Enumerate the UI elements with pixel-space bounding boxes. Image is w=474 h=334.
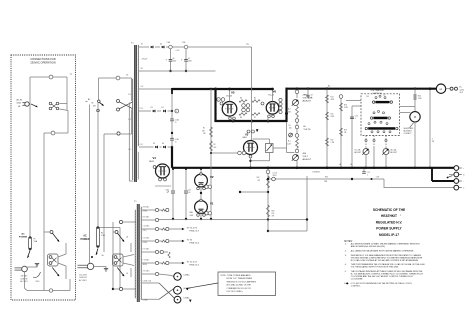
svg-text:D1: D1 bbox=[141, 44, 143, 46]
svg-text:NOTE: TOTAL POWER AVAILABLE: NOTE: TOTAL POWER AVAILABLE bbox=[221, 274, 252, 277]
svg-text:R15: R15 bbox=[331, 113, 334, 115]
svg-text:B+ VOLTAGE ADJUST CONTROL TURN: B+ VOLTAGE ADJUST CONTROL TURNED FULLY C… bbox=[351, 273, 424, 276]
svg-text:ALL RESISTORS ARE 1/2 WATT UNL: ALL RESISTORS ARE 1/2 WATT UNLESS MARKED… bbox=[351, 243, 420, 246]
svg-text:R1: R1 bbox=[203, 128, 205, 130]
svg-text:D6: D6 bbox=[162, 143, 164, 145]
svg-text:TP1: TP1 bbox=[246, 44, 249, 46]
svg-text:PINS 2 & 7: PINS 2 & 7 bbox=[190, 230, 200, 232]
svg-text:(GRN): (GRN) bbox=[143, 211, 148, 213]
svg-text:ALL CAPACITOR VALUES ARE IN UF: ALL CAPACITOR VALUES ARE IN UF UNLESS MA… bbox=[351, 249, 414, 252]
svg-text:M: M bbox=[414, 115, 416, 119]
svg-text:ADJUST: ADJUST bbox=[303, 158, 312, 161]
svg-text:CLOCKWISE.: CLOCKWISE. bbox=[351, 279, 364, 281]
svg-text:G1: G1 bbox=[217, 99, 219, 101]
svg-text:VOLTMETER: VOLTMETER bbox=[370, 90, 384, 92]
svg-text:6.3V: 6.3V bbox=[140, 144, 143, 146]
svg-text:6BW4: 6BW4 bbox=[149, 161, 154, 163]
svg-text:ADJUST: ADJUST bbox=[391, 151, 398, 154]
svg-text:D2: D2 bbox=[160, 44, 162, 46]
svg-text:TO V3: TO V3 bbox=[187, 240, 193, 242]
svg-text:R2: R2 bbox=[214, 144, 216, 146]
svg-text:+: + bbox=[463, 168, 464, 170]
svg-text:.1: .1 bbox=[311, 97, 312, 99]
svg-text:6.3VAC: 6.3VAC bbox=[184, 296, 191, 299]
svg-text:HEATHKIT: HEATHKIT bbox=[381, 214, 397, 218]
svg-text:C14: C14 bbox=[355, 115, 358, 117]
svg-text:6.3VAC: 6.3VAC bbox=[184, 274, 191, 277]
svg-text:R23: R23 bbox=[325, 177, 328, 179]
svg-text:+C3B: +C3B bbox=[175, 139, 179, 141]
svg-text:6.3V OR 12.6VAC).: 6.3V OR 12.6VAC). bbox=[227, 290, 244, 293]
svg-text:GROUND WITH AN 11 MEGOHM INPUT: GROUND WITH AN 11 MEGOHM INPUT VOLTMETER… bbox=[351, 256, 423, 259]
svg-text:AT 6.3VAC (6.3VAC OR THE: AT 6.3VAC (6.3VAC OR THE bbox=[227, 284, 252, 287]
svg-text:INDICATES DC VOLTAGE MEASURED: INDICATES DC VOLTAGE MEASURED FROM POINT… bbox=[351, 254, 422, 257]
svg-text:(YEL): (YEL) bbox=[143, 230, 147, 232]
svg-text:+ COL: + COL bbox=[175, 50, 180, 52]
svg-text:R5: R5 bbox=[254, 98, 256, 100]
svg-text:FROM "X-X" TRANSFORMER: FROM "X-X" TRANSFORMER bbox=[227, 277, 253, 280]
svg-text:C4 .01: C4 .01 bbox=[273, 172, 278, 174]
svg-text:PINS 3 & 4: PINS 3 & 4 bbox=[190, 242, 201, 244]
svg-text:230VAC OPERATION: 230VAC OPERATION bbox=[30, 61, 55, 65]
svg-text:(BRN): (BRN) bbox=[143, 264, 148, 266]
svg-text:R4: R4 bbox=[240, 98, 242, 100]
svg-text:ARE IN OHMS (K=1,000 M=1,000,: ARE IN OHMS (K=1,000 M=1,000,000). bbox=[351, 245, 386, 248]
svg-text:50/60 HZ: 50/60 HZ bbox=[79, 277, 87, 279]
svg-text:.1: .1 bbox=[432, 138, 433, 140]
svg-text:R14: R14 bbox=[331, 96, 334, 98]
svg-text:20: 20 bbox=[175, 122, 177, 124]
svg-text:NOTES:: NOTES: bbox=[344, 241, 353, 243]
svg-text:125V: 125V bbox=[140, 108, 144, 110]
svg-text:MODEL IP-17: MODEL IP-17 bbox=[379, 233, 399, 237]
svg-text:275-0V: 275-0V bbox=[142, 58, 149, 60]
svg-text:D4: D4 bbox=[162, 107, 164, 109]
svg-text:TO V5 & V6: TO V5 & V6 bbox=[187, 228, 197, 230]
svg-text:D3: D3 bbox=[151, 107, 153, 109]
svg-text:C15: C15 bbox=[367, 172, 370, 174]
svg-text:20: 20 bbox=[175, 141, 177, 143]
svg-text:C6: C6 bbox=[289, 125, 291, 127]
svg-text:50/60 HZ: 50/60 HZ bbox=[21, 278, 28, 280]
svg-text:6AU6: 6AU6 bbox=[243, 136, 247, 139]
svg-text:50/60: 50/60 bbox=[17, 102, 22, 104]
svg-text:ADJUST: ADJUST bbox=[303, 99, 312, 102]
svg-text:R20: R20 bbox=[272, 211, 275, 213]
svg-text:POWER: POWER bbox=[19, 237, 28, 239]
svg-text:BLK: BLK bbox=[128, 119, 131, 121]
svg-text:.05: .05 bbox=[188, 192, 190, 194]
svg-text:SCHEMATIC OF THE: SCHEMATIC OF THE bbox=[373, 208, 406, 212]
svg-text:TO V1 & V2: TO V1 & V2 bbox=[187, 262, 197, 264]
svg-text:AC ONLY: AC ONLY bbox=[79, 279, 88, 282]
svg-text:THIS POINT MEASURES THE VOLTAG: THIS POINT MEASURES THE VOLTAGE AT FULL … bbox=[351, 263, 425, 266]
svg-text:D5: D5 bbox=[153, 143, 155, 145]
svg-text:EL-34: EL-34 bbox=[269, 95, 275, 97]
svg-text:C10: C10 bbox=[188, 189, 191, 191]
svg-text:R6: R6 bbox=[240, 117, 242, 119]
svg-text:NO LOAD, LINE VOLTAGE AT 120 V: NO LOAD, LINE VOLTAGE AT 120 VAC AND CON… bbox=[351, 259, 419, 262]
svg-text:COMBINATION OF 6.3V OR: COMBINATION OF 6.3V OR bbox=[227, 287, 252, 290]
svg-text:VOLT: VOLT bbox=[303, 156, 309, 158]
svg-text:CLOCKWISE AND THE 400 VOLT ADJ: CLOCKWISE AND THE 400 VOLT ADJUST CONTRO… bbox=[351, 275, 414, 278]
svg-text:V4: V4 bbox=[153, 156, 157, 160]
svg-text:115-125V: 115-125V bbox=[79, 274, 87, 276]
svg-text:AC CAL: AC CAL bbox=[391, 149, 397, 152]
svg-text:40: 40 bbox=[188, 58, 190, 60]
svg-text:VOLT REGULATED SUPPLY PORTION: VOLT REGULATED SUPPLY PORTION OF THIS UN… bbox=[351, 266, 399, 269]
svg-text:.1: .1 bbox=[367, 175, 368, 177]
svg-text:.1: .1 bbox=[355, 118, 356, 120]
svg-text:R7: R7 bbox=[254, 117, 256, 119]
svg-text:PINS 4 & 5: PINS 4 & 5 bbox=[190, 264, 200, 266]
svg-text:V5: V5 bbox=[231, 90, 235, 94]
svg-text:WINDING IS 275 VOLT AMPERES: WINDING IS 275 VOLT AMPERES bbox=[227, 280, 257, 283]
svg-text:C8: C8 bbox=[311, 95, 313, 97]
svg-text:CONNECTIONS FOR: CONNECTIONS FOR bbox=[30, 57, 55, 61]
svg-text:40: 40 bbox=[167, 192, 169, 194]
svg-text:AC IN: AC IN bbox=[17, 99, 23, 102]
svg-text:.005: .005 bbox=[289, 128, 292, 130]
svg-text:V2: V2 bbox=[210, 175, 214, 179]
svg-text:OFF: OFF bbox=[366, 96, 369, 98]
svg-text:R16: R16 bbox=[344, 104, 347, 106]
svg-text:(GRN): (GRN) bbox=[143, 242, 148, 244]
svg-text:400: 400 bbox=[383, 95, 386, 97]
svg-text:ADJUST: ADJUST bbox=[355, 151, 362, 154]
svg-text:DC CAL: DC CAL bbox=[355, 149, 361, 152]
svg-text:R19: R19 bbox=[344, 129, 347, 131]
svg-text:VOLTS: VOLTS bbox=[304, 129, 312, 131]
svg-text:AC: AC bbox=[21, 232, 25, 235]
svg-text:BLK: BLK bbox=[128, 94, 131, 96]
svg-text:CONTACT: CONTACT bbox=[404, 132, 412, 135]
svg-text:40: 40 bbox=[173, 58, 175, 60]
svg-text:POWER: POWER bbox=[80, 238, 89, 241]
svg-text:R17: R17 bbox=[331, 139, 334, 141]
svg-text:THE VOLTAGES INDICATED AT TUBE: THE VOLTAGES INDICATED AT TUBES V5 AND V… bbox=[351, 270, 423, 273]
svg-text:REGULATED H.V.: REGULATED H.V. bbox=[376, 221, 403, 225]
svg-text:COMMON: COMMON bbox=[312, 171, 321, 173]
svg-text:V1: V1 bbox=[210, 202, 214, 206]
svg-text:POWER SUPPLY: POWER SUPPLY bbox=[376, 227, 402, 231]
svg-text:CONTROL.: CONTROL. bbox=[351, 286, 361, 288]
